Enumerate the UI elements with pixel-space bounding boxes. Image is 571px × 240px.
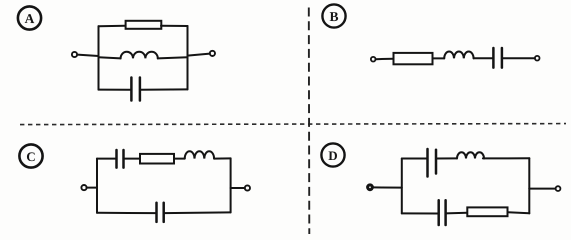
terminal (A left) xyxy=(72,52,77,57)
resistor (C top branch) xyxy=(140,154,174,164)
wire (A middle branch right) xyxy=(158,57,188,58)
svg-text:A: A xyxy=(25,11,35,26)
terminal (C right) xyxy=(245,185,250,190)
wire (B right lead) xyxy=(502,57,535,59)
svg-text:C: C xyxy=(26,149,35,164)
capacitor (A bottom branch) xyxy=(131,78,140,101)
wire (D bottom edge left) xyxy=(402,212,439,214)
terminal (C left) xyxy=(81,185,86,190)
wire (C top edge right) xyxy=(214,157,231,159)
terminal (B left) xyxy=(371,57,376,62)
wire (C bottom edge left) xyxy=(97,212,156,214)
inductor (D top branch) xyxy=(457,152,484,158)
capacitor (D top branch) xyxy=(428,149,437,177)
wire (A bottom edge left) xyxy=(99,89,132,91)
inductor (B series) xyxy=(444,52,473,59)
inductor (A middle branch) xyxy=(121,52,158,59)
inductor (C top branch) xyxy=(185,151,214,158)
wire (D top edge right) xyxy=(483,157,529,159)
wire (D right lead) xyxy=(529,188,555,190)
svg-text:D: D xyxy=(328,148,337,163)
wire (A middle branch left) xyxy=(99,57,121,58)
terminal (D left, filled) xyxy=(368,185,373,190)
wire (C right lead) xyxy=(231,187,245,189)
resistor (B series) xyxy=(394,53,433,64)
wire (C box left edge) xyxy=(96,159,98,213)
label C xyxy=(19,144,42,167)
label D xyxy=(321,143,344,166)
wire (B resistor to inductor) xyxy=(433,57,445,59)
vertical dashed divider xyxy=(308,8,311,235)
capacitor (B series) xyxy=(493,48,502,68)
wire (C box right edge) xyxy=(230,158,232,212)
wire (D left lead) xyxy=(373,186,402,188)
wire (D capacitor to inductor) xyxy=(436,157,457,159)
capacitor (C top branch) xyxy=(117,150,124,168)
wire (A top edge left) xyxy=(99,25,126,28)
wire (B left lead) xyxy=(376,58,394,61)
wire (D box left edge) xyxy=(401,159,403,214)
terminal (A right) xyxy=(210,51,215,56)
wire (C resistor to inductor) xyxy=(174,158,185,160)
wire (A left lead) xyxy=(77,55,98,56)
label A xyxy=(18,6,41,29)
wire (C top edge left) xyxy=(97,158,116,160)
capacitor (D bottom branch) xyxy=(439,200,446,225)
wire (C left lead) xyxy=(87,187,97,189)
wire (C capacitor to resistor) xyxy=(124,158,141,160)
wire (A right lead) xyxy=(188,54,210,56)
wire (A box left edge) xyxy=(98,26,100,89)
label B xyxy=(322,4,345,27)
horizontal dashed divider xyxy=(20,124,566,125)
wire (B inductor to capacitor) xyxy=(474,57,493,59)
wire (D capacitor to resistor) xyxy=(446,212,468,215)
wire (A top edge right) xyxy=(161,25,188,27)
svg-text:B: B xyxy=(329,9,338,24)
wire (A box right edge) xyxy=(187,26,189,89)
wire (D box right edge) xyxy=(528,158,530,213)
terminal (D right) xyxy=(556,186,561,191)
resistor (A top branch) xyxy=(126,21,162,29)
terminal (B right) xyxy=(535,56,540,61)
capacitor (C bottom branch) xyxy=(157,203,164,222)
wire (A bottom edge right) xyxy=(140,88,188,90)
wire (D top edge left) xyxy=(402,158,428,160)
wire (C bottom edge right) xyxy=(164,211,231,214)
wire (D bottom edge right) xyxy=(508,212,530,213)
resistor (D bottom branch) xyxy=(467,207,507,216)
